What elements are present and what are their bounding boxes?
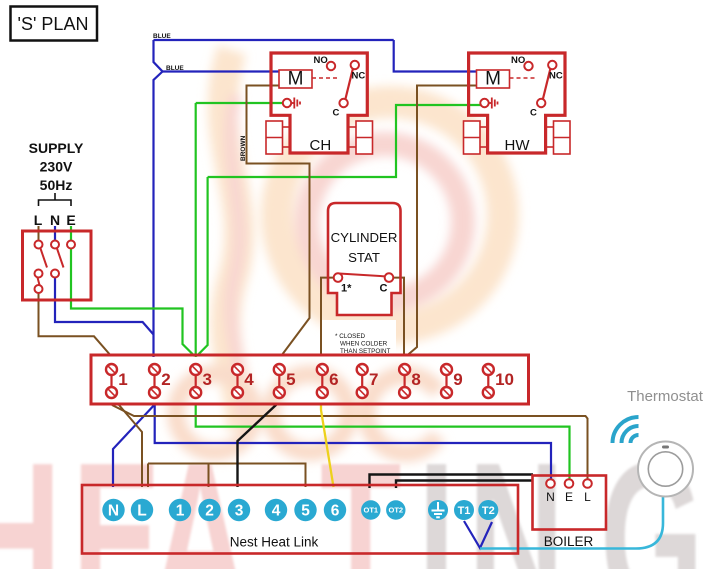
svg-text:L: L [137, 503, 146, 520]
svg-text:6: 6 [329, 370, 338, 389]
svg-text:STAT: STAT [348, 250, 380, 265]
svg-text:NC: NC [352, 71, 366, 82]
svg-text:T: T [320, 417, 401, 569]
svg-text:CYLINDER: CYLINDER [331, 230, 398, 245]
svg-text:HW: HW [505, 137, 531, 154]
svg-text:7: 7 [369, 370, 378, 389]
svg-text:* CLOSED: * CLOSED [335, 333, 366, 340]
svg-text:H: H [0, 417, 61, 569]
svg-text:N: N [546, 490, 555, 504]
svg-text:SUPPLY: SUPPLY [29, 140, 84, 156]
svg-text:C: C [333, 108, 340, 119]
svg-text:3: 3 [203, 370, 212, 389]
svg-text:C: C [530, 108, 537, 119]
svg-text:NC: NC [549, 71, 563, 82]
svg-text:OT1: OT1 [364, 506, 379, 515]
svg-text:5: 5 [301, 503, 310, 520]
svg-text:4: 4 [244, 370, 254, 389]
svg-text:4: 4 [272, 503, 281, 520]
svg-text:T2: T2 [482, 505, 495, 517]
svg-text:E: E [565, 490, 573, 504]
svg-text:L: L [34, 212, 43, 228]
svg-text:C: C [380, 283, 388, 295]
svg-text:'S' PLAN: 'S' PLAN [18, 14, 89, 34]
svg-text:5: 5 [286, 370, 295, 389]
svg-text:BLUE: BLUE [153, 33, 171, 40]
svg-text:T1: T1 [458, 505, 471, 517]
svg-text:6: 6 [331, 503, 340, 520]
svg-text:10: 10 [495, 370, 514, 389]
svg-text:WHEN COLDER: WHEN COLDER [340, 341, 388, 348]
svg-text:M: M [485, 69, 501, 90]
svg-text:2: 2 [161, 370, 170, 389]
svg-text:E: E [66, 212, 75, 228]
svg-text:8: 8 [411, 370, 420, 389]
svg-text:230V: 230V [40, 159, 73, 175]
svg-text:1: 1 [176, 503, 185, 520]
svg-text:L: L [584, 490, 591, 504]
svg-text:BOILER: BOILER [544, 534, 594, 549]
svg-text:NO: NO [511, 55, 525, 66]
svg-text:OT2: OT2 [389, 506, 404, 515]
svg-text:I: I [418, 417, 455, 569]
svg-text:1*: 1* [341, 283, 352, 295]
svg-text:BROWN: BROWN [240, 135, 247, 161]
svg-text:NO: NO [314, 55, 328, 66]
svg-text:N: N [50, 212, 60, 228]
svg-text:E: E [72, 417, 161, 569]
svg-text:M: M [288, 69, 304, 90]
svg-text:1: 1 [118, 370, 127, 389]
svg-text:9: 9 [453, 370, 462, 389]
svg-text:Nest Heat Link: Nest Heat Link [230, 535, 319, 550]
svg-text:3: 3 [235, 503, 244, 520]
svg-text:BLUE: BLUE [166, 65, 184, 72]
svg-text:N: N [108, 503, 119, 520]
svg-text:Thermostat: Thermostat [627, 388, 704, 405]
svg-text:50Hz: 50Hz [40, 177, 73, 193]
svg-text:CH: CH [310, 137, 332, 154]
svg-text:2: 2 [205, 503, 214, 520]
